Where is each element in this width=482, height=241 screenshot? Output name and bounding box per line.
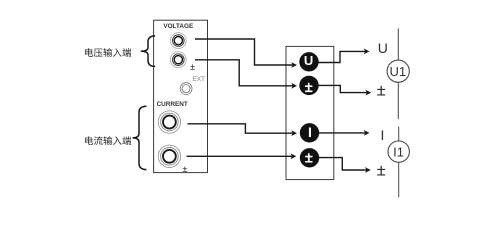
- svg-text:U1: U1: [389, 64, 406, 79]
- svg-text:VOLTAGE: VOLTAGE: [163, 23, 194, 30]
- svg-text:±: ±: [190, 62, 195, 72]
- svg-text:U: U: [304, 53, 313, 68]
- svg-text:EXT: EXT: [192, 76, 205, 83]
- svg-text:I1: I1: [393, 144, 404, 159]
- svg-text:±: ±: [182, 164, 187, 174]
- svg-text:I: I: [308, 124, 312, 140]
- svg-text:U: U: [378, 40, 388, 56]
- svg-text:I: I: [381, 127, 385, 143]
- svg-text:CURRENT: CURRENT: [157, 101, 188, 108]
